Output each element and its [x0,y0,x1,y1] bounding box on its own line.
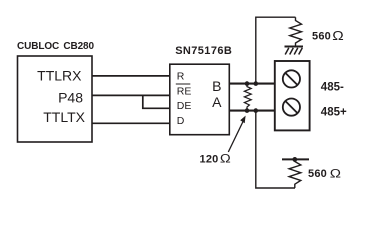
svg-text:D: D [177,115,185,127]
svg-text:120: 120 [200,154,219,166]
svg-text:B: B [212,78,221,94]
svg-text:Ω: Ω [220,152,231,165]
svg-text:485-: 485- [321,81,344,93]
svg-text:485+: 485+ [321,107,347,119]
svg-text:DE: DE [177,100,192,112]
svg-text:CUBLOC CB280: CUBLOC CB280 [17,41,95,52]
svg-text:TTLTX: TTLTX [43,109,85,125]
svg-text:P48: P48 [58,90,83,106]
svg-text:RE: RE [177,86,192,98]
svg-text:Ω: Ω [330,167,341,180]
svg-text:Ω: Ω [332,28,343,42]
svg-text:R: R [177,71,185,83]
svg-text:TTLRX: TTLRX [37,68,82,84]
svg-text:560: 560 [308,168,327,180]
svg-text:A: A [212,94,222,110]
svg-text:560: 560 [312,31,331,43]
svg-text:SN75176B: SN75176B [175,45,232,57]
